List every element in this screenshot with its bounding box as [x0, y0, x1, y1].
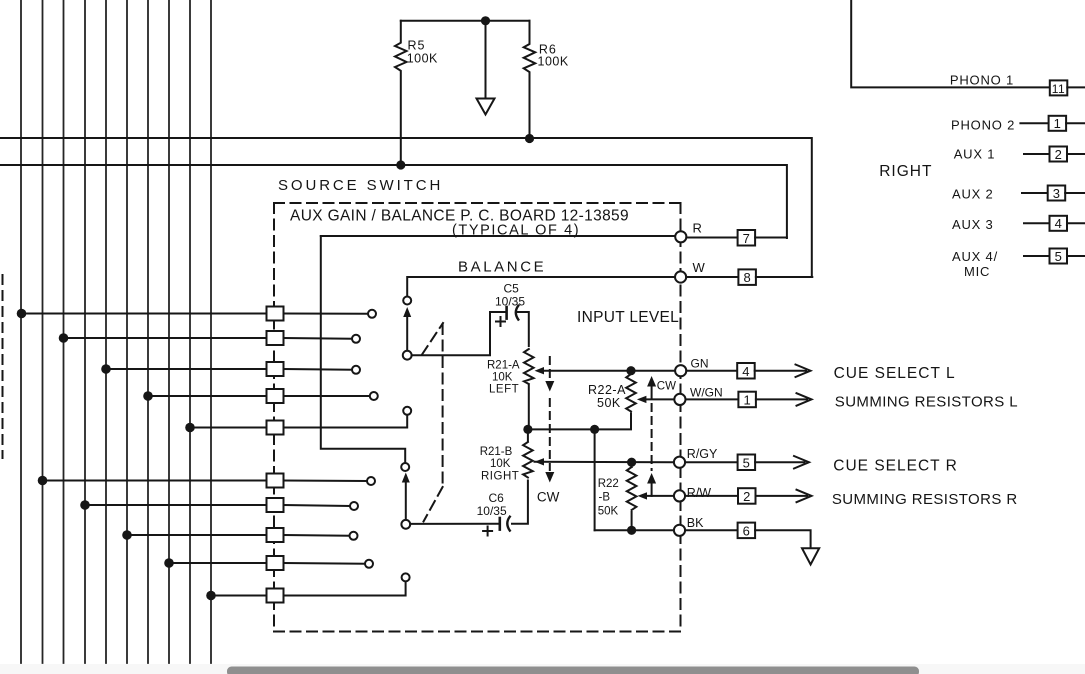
svg-text:R21-B: R21-B: [480, 446, 513, 458]
wire bus line 7: [147, 0, 149, 663]
svg-text:8: 8: [743, 270, 750, 285]
switch box S2: [267, 331, 284, 345]
node junction row 10 on bus 10: [206, 591, 216, 601]
node junction row 8 on bus 6: [122, 530, 132, 540]
wire box 7 to rail 2: [755, 237, 787, 239]
pin box 4: [737, 363, 755, 379]
wire summing resistors R arrow: [756, 490, 812, 503]
wire summing resistors L arrow: [756, 393, 812, 406]
svg-text:AUX 1: AUX 1: [954, 147, 996, 162]
wire row 2 to contact: [284, 337, 353, 340]
wire bus line 1: [20, 0, 22, 663]
node junction R22-B bottom on BK rail: [627, 526, 636, 535]
node deck A wiper arrowhead: [403, 307, 411, 317]
node junction R22-B top: [627, 458, 636, 467]
node junction row 2 on bus 3: [59, 333, 69, 343]
SWITCHES: [17, 236, 676, 603]
wire R22-B bottom lead: [631, 512, 633, 530]
wire row 4 to contact: [284, 395, 370, 397]
wire phono 2 stub: [1020, 122, 1048, 124]
wire row 9: [169, 562, 267, 564]
svg-text:CUE SELECT R: CUE SELECT R: [833, 457, 958, 474]
wire R22-A wiper to W/GN pin: [644, 398, 675, 400]
connector box 4: [1050, 216, 1068, 231]
svg-text:SUMMING RESISTORS L: SUMMING RESISTORS L: [835, 394, 1018, 411]
node contact row 10: [402, 573, 410, 581]
ground (open triangle): [477, 99, 495, 115]
svg-text:RIGHT: RIGHT: [481, 471, 519, 483]
svg-text:C6: C6: [489, 491, 505, 505]
node R21-B wiper arrowhead: [535, 458, 545, 465]
wire row 9 to contact: [284, 562, 366, 565]
POTS: [410, 306, 675, 536]
wire BK pin to box 6: [685, 529, 738, 531]
svg-text:GN: GN: [691, 357, 709, 371]
ground (open triangle at pin 6): [802, 548, 819, 564]
wire R21-B top: [527, 429, 529, 441]
scrollbar thumb: [227, 667, 919, 674]
svg-text:R22: R22: [598, 478, 619, 490]
wire R22 CW shaft lower: [651, 483, 653, 496]
svg-text:MIC: MIC: [964, 264, 990, 279]
svg-text:50K: 50K: [597, 396, 621, 410]
wire phono 2 out: [1066, 122, 1085, 124]
node contact row 4: [370, 392, 378, 400]
wire C5 right lead to R21-A: [517, 312, 529, 346]
svg-text:R/W: R/W: [687, 486, 712, 500]
wire horizontal rail 2 (to pin 7 R): [0, 165, 787, 238]
node R22-B wiper arrowhead: [638, 492, 648, 499]
svg-text:10/35: 10/35: [477, 504, 507, 518]
wire aux 2 out: [1065, 192, 1085, 194]
node pin circle BK: [674, 525, 685, 536]
wire R22-B wiper to R/W pin: [645, 495, 675, 497]
scrollbar track: [0, 664, 1085, 674]
wire aux 3 stub: [1024, 222, 1050, 224]
svg-text:RIGHT: RIGHT: [879, 163, 932, 180]
wire dashed deck A wiper diagonal: [422, 323, 443, 355]
switch box S7: [267, 498, 284, 512]
node contact row 6: [367, 477, 375, 485]
PINS: [321, 230, 819, 565]
svg-text:3: 3: [1053, 186, 1060, 201]
svg-text:SOURCE SWITCH: SOURCE SWITCH: [278, 177, 443, 194]
wire dashed deck B wiper diagonal: [424, 487, 443, 522]
switch box S4: [267, 389, 284, 403]
resistor R22-B: [627, 467, 637, 510]
wire cue select L arrow: [755, 365, 811, 378]
wire dashed adjacent-board edge at far left: [2, 275, 4, 458]
wire dashed R22 CW axis: [651, 404, 653, 470]
wire drop to BK rail: [594, 429, 596, 530]
node pin circle R/W: [674, 490, 685, 501]
svg-text:10K: 10K: [490, 458, 511, 470]
node contact row 9: [365, 560, 373, 568]
wire bus line 5: [105, 0, 107, 663]
svg-text:6: 6: [743, 523, 750, 538]
wire aux 4 out: [1067, 255, 1085, 257]
wire row 1: [21, 313, 267, 315]
svg-text:BALANCE: BALANCE: [458, 259, 546, 276]
node pin circle GN: [675, 365, 686, 376]
node contact row 2: [352, 335, 360, 343]
connector box 2: [1050, 147, 1068, 162]
svg-text:-B: -B: [599, 492, 611, 504]
pin box 8: [738, 269, 756, 285]
switch box S10: [267, 589, 284, 603]
svg-text:C5: C5: [504, 282, 520, 296]
node junction row 7 on bus 4: [80, 500, 90, 510]
node R21-A wiper arrowhead: [535, 367, 545, 374]
svg-text:4: 4: [742, 364, 749, 379]
wire box 8 to rail 1: [756, 276, 812, 278]
svg-text:BK: BK: [687, 516, 704, 530]
node contact row 3: [352, 366, 360, 374]
svg-text:PHONO 1: PHONO 1: [950, 73, 1014, 88]
node deck B selected contact: [401, 463, 409, 471]
node pin circle R/GY: [674, 457, 685, 468]
wire R22-A top lead: [630, 371, 632, 374]
node R22 CW arrowhead upper: [647, 376, 656, 387]
svg-text:W: W: [693, 260, 706, 275]
svg-text:W/GN: W/GN: [690, 386, 723, 400]
wire aux 1 out: [1067, 153, 1085, 155]
svg-text:CUE SELECT L: CUE SELECT L: [834, 365, 956, 382]
wire R/GY pin to box 5: [685, 461, 738, 463]
wire bus line 2: [42, 0, 44, 663]
wire BK rail: [595, 529, 675, 531]
pin box 6: [738, 523, 756, 539]
resistor R6: [524, 21, 536, 139]
node pin circle W/GN: [674, 394, 685, 405]
node contact row 7: [350, 502, 358, 510]
capacitor C6: [483, 517, 510, 536]
svg-text:INPUT LEVEL: INPUT LEVEL: [577, 309, 679, 326]
node R21 CW arrowhead lower: [545, 472, 554, 483]
wire bus line 6: [126, 0, 128, 663]
wire R feed down to deck B contact: [321, 236, 405, 463]
wire row 6: [43, 480, 267, 482]
wire deck A wiper shaft: [406, 316, 408, 350]
pin box 7: [738, 230, 756, 246]
node junction top rail: [481, 16, 490, 25]
wire row 7 to contact: [284, 505, 351, 506]
pin box 5: [738, 455, 756, 471]
wire row 3: [106, 368, 267, 370]
svg-text:R22-A: R22-A: [588, 383, 626, 397]
node pin circle R: [675, 231, 686, 242]
wire R balance feed: [321, 235, 675, 237]
wire bus line 4: [84, 0, 86, 663]
wire R22 CW shaft upper: [651, 385, 653, 399]
svg-text:1: 1: [743, 393, 750, 408]
wire box 6 to ground: [755, 530, 811, 547]
wire bus line 9: [189, 0, 191, 663]
node junction bottom rail to BK: [590, 425, 599, 434]
wire dashed R21 CW axis upper: [549, 357, 551, 380]
wire row 3 to contact: [284, 368, 353, 371]
switch box S6: [267, 474, 284, 488]
wire C5 left lead: [490, 311, 505, 313]
wire phono 1 feed: [851, 0, 1050, 87]
wire bus line 8: [168, 0, 170, 663]
switch box S5: [267, 421, 284, 435]
svg-text:LEFT: LEFT: [489, 384, 519, 396]
svg-text:100K: 100K: [538, 54, 569, 68]
svg-text:AUX 4/: AUX 4/: [952, 249, 998, 264]
wire cue select R arrow: [755, 456, 809, 469]
svg-text:4: 4: [1055, 216, 1062, 231]
svg-text:10K: 10K: [492, 372, 513, 384]
wire dashed board outline bottom edge: [274, 631, 681, 633]
wire R21-A wiper to GN pin: [542, 370, 675, 372]
wire bus line 10: [210, 0, 212, 663]
svg-text:5: 5: [1055, 249, 1062, 264]
node junction R6 on rail 1: [525, 134, 534, 143]
wire deck B wiper shaft: [405, 482, 407, 520]
svg-text:AUX 2: AUX 2: [952, 187, 994, 202]
node junction R5 on rail 2: [396, 160, 405, 169]
connector box 11: [1050, 80, 1068, 95]
node pin circle W: [675, 271, 686, 282]
svg-text:1: 1: [1054, 116, 1061, 131]
connector box 5: [1050, 249, 1068, 264]
wire dashed gang linkage vertical: [442, 324, 444, 487]
BUS-LINES: [21, 0, 211, 663]
node contact row 5: [403, 407, 411, 415]
wire row 1 to contact: [284, 313, 369, 315]
resistor R21-A: [524, 349, 534, 384]
wire row 8 to contact: [284, 534, 350, 537]
wire aux 2 stub: [1022, 192, 1048, 194]
wire W/GN pin to box 1: [686, 398, 739, 400]
svg-text:PHONO 2: PHONO 2: [951, 118, 1015, 133]
svg-text:SUMMING RESISTORS R: SUMMING RESISTORS R: [832, 491, 1018, 508]
wire horizontal rail 1 (to pin 8 W): [0, 138, 812, 277]
wire W pin to box 8: [686, 276, 738, 278]
svg-text:10/35: 10/35: [495, 295, 525, 309]
wire R21-B bottom to C6: [512, 481, 528, 524]
wire dashed board outline left edge / switch gang linkage: [273, 203, 275, 632]
node rotary deck A common: [403, 351, 412, 360]
node junction row 1 on bus 1: [17, 309, 27, 319]
node junction row 3 on bus 5: [101, 364, 111, 374]
svg-text:11: 11: [1052, 82, 1065, 96]
resistor R21-B: [523, 442, 533, 478]
TOP-NETWORK: [0, 16, 812, 277]
svg-text:R21-A: R21-A: [487, 360, 520, 372]
wire top rail R5-R6: [401, 20, 530, 22]
wire row 5 (up to contact): [190, 427, 267, 429]
connector box 1: [1049, 116, 1067, 131]
wire R22-B top lead: [631, 462, 633, 467]
wire aux 1 stub: [1024, 153, 1050, 155]
capacitor C5: [496, 306, 518, 326]
pin box 2: [738, 488, 756, 504]
resistor R5: [395, 21, 407, 165]
switch box S9: [267, 556, 284, 570]
wire R22-A bottom to bottom rail: [528, 414, 631, 430]
BOARD-BOX: [3, 203, 681, 632]
svg-text:CW: CW: [537, 490, 560, 505]
wire dashed board outline right edge: [680, 203, 682, 632]
wire R21-B wiper to R/GY pin: [535, 461, 675, 463]
wire R pin to box 7: [686, 237, 737, 239]
switch box S8: [267, 528, 284, 542]
svg-text:5: 5: [743, 455, 750, 470]
wire dashed R21 CW axis lower: [549, 399, 551, 470]
svg-text:7: 7: [743, 231, 750, 246]
svg-text:CW: CW: [657, 381, 676, 393]
node junction row 5 on bus 9: [185, 423, 195, 433]
resistor R22-A: [626, 374, 636, 412]
node junction R21 center tap: [523, 425, 532, 434]
node contact row 1: [368, 310, 376, 318]
wire row 2: [64, 337, 267, 339]
node deck A selected contact: [403, 297, 411, 305]
node junction row 4 on bus 7: [143, 391, 153, 401]
svg-text:2: 2: [1055, 147, 1062, 162]
svg-text:R5: R5: [408, 38, 426, 52]
svg-text:R/GY: R/GY: [687, 447, 718, 461]
pin box 1: [738, 392, 756, 408]
svg-text:100K: 100K: [407, 51, 438, 65]
wire bus line 3: [63, 0, 65, 663]
wire dashed board outline top edge: [274, 202, 681, 204]
wire deck A common to C5: [412, 312, 490, 355]
wire row 4: [148, 395, 267, 397]
wire GN pin to box 4: [686, 370, 737, 372]
wire row 10 right segment: [284, 581, 406, 595]
switch box S1: [267, 307, 284, 321]
node junction R22-A top: [626, 366, 635, 375]
svg-text:(TYPICAL OF 4): (TYPICAL OF 4): [452, 223, 580, 239]
wire row 6 to contact: [284, 480, 368, 483]
wire row 8: [127, 534, 267, 536]
wire aux 4 stub: [1024, 255, 1050, 257]
svg-text:50K: 50K: [598, 506, 619, 518]
svg-text:AUX 3: AUX 3: [952, 217, 994, 232]
wire R21-A bottom to junction: [528, 386, 530, 430]
wire R/W pin to box 2: [685, 495, 738, 497]
wire deck A contact to W balance line: [407, 277, 675, 297]
node junction row 9 on bus 8: [164, 558, 174, 568]
wire aux 3 out: [1067, 222, 1085, 224]
wire row 10: [211, 595, 267, 597]
node contact row 8: [350, 532, 358, 540]
wire phono 1 out: [1067, 86, 1085, 88]
node R22 CW arrowhead lower: [647, 473, 656, 484]
node junction row 6 on bus 2: [38, 476, 48, 486]
RIGHTCOL: [851, 0, 1085, 264]
node rotary deck B common: [401, 520, 410, 529]
connector box 3: [1048, 186, 1066, 201]
wire row 5 right segment: [284, 415, 408, 428]
wire ground stem: [485, 21, 487, 97]
wire C6 left lead to deck B common: [410, 523, 498, 525]
wire row 7: [85, 504, 267, 506]
svg-text:2: 2: [743, 489, 750, 504]
switch box S3: [267, 362, 284, 376]
svg-text:R: R: [693, 221, 702, 236]
node R21 CW arrowhead upper: [545, 381, 554, 392]
node R22-A wiper arrowhead: [637, 396, 647, 403]
node deck B wiper arrowhead: [402, 473, 410, 483]
